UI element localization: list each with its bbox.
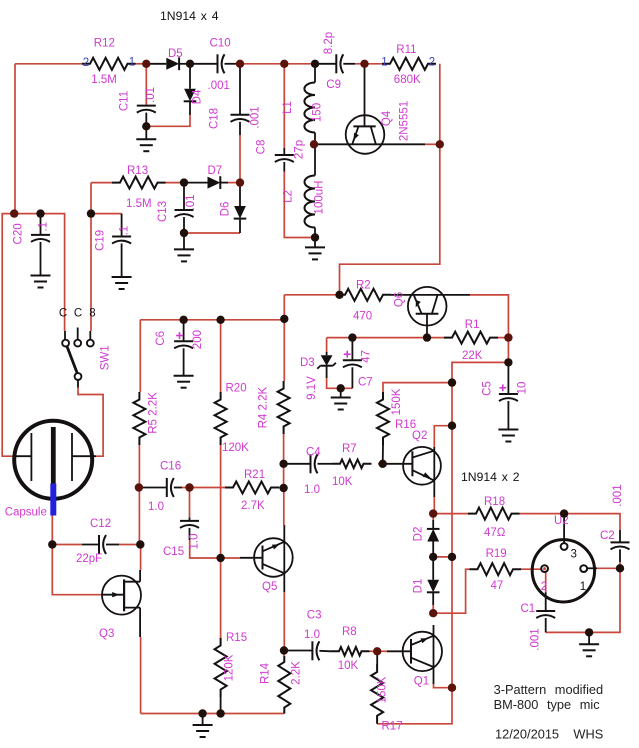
label L1	[282, 101, 294, 114]
capacitor C13	[175, 183, 194, 250]
capacitor C4	[284, 454, 332, 473]
label SW1 pos C2	[74, 308, 82, 320]
svg-text:1.0: 1.0	[188, 534, 200, 550]
svg-text:.001: .001	[612, 484, 624, 506]
wire	[190, 487, 226, 489]
svg-text:47Ω: 47Ω	[484, 527, 506, 539]
label Q5	[262, 581, 277, 593]
junction	[36, 209, 44, 217]
label R19	[486, 548, 507, 560]
label Q3	[99, 628, 114, 640]
label R11	[396, 44, 416, 56]
junction	[136, 540, 144, 548]
svg-text:470: 470	[353, 311, 372, 323]
label C7 value	[361, 350, 373, 363]
switch SW1	[62, 328, 94, 388]
junction	[216, 554, 224, 562]
svg-text:C11: C11	[119, 91, 131, 111]
junction	[280, 646, 288, 654]
label C8 value	[294, 140, 306, 159]
junction	[216, 709, 224, 717]
label R7	[342, 443, 357, 455]
ground bottom	[193, 714, 213, 738]
note line2	[494, 697, 601, 712]
svg-text:R2: R2	[356, 280, 371, 292]
resistor R19	[470, 563, 522, 575]
pin 1 R11	[381, 57, 387, 69]
label R20	[226, 383, 247, 395]
wire	[182, 487, 190, 489]
svg-text:1: 1	[381, 57, 387, 69]
wire	[507, 338, 509, 363]
label XLR pin 3	[571, 549, 577, 561]
resistor R14	[278, 656, 290, 714]
wire	[138, 445, 140, 545]
svg-text:C16: C16	[160, 461, 181, 473]
capacitor C20	[31, 214, 50, 276]
wire	[326, 338, 328, 352]
capacitor C18	[231, 64, 250, 135]
label C4 value	[304, 484, 320, 496]
label C2 value	[612, 484, 624, 506]
label Q2	[412, 430, 427, 442]
wire	[383, 383, 452, 392]
junction	[379, 460, 387, 468]
transistor Q3	[102, 570, 141, 637]
svg-text:R21: R21	[244, 469, 265, 481]
wire	[90, 183, 92, 331]
svg-text:680K: 680K	[394, 74, 421, 86]
diode D6	[234, 183, 247, 233]
resistor R18	[468, 508, 520, 520]
svg-text:C13: C13	[157, 201, 169, 222]
svg-text:C7: C7	[358, 377, 373, 389]
svg-text:10: 10	[517, 382, 529, 395]
label C20	[12, 223, 24, 244]
svg-text:D5: D5	[168, 48, 183, 60]
capacitor C3	[284, 641, 331, 660]
wire	[327, 337, 444, 339]
label R17 value	[377, 676, 389, 703]
wire	[377, 688, 452, 724]
wire	[545, 572, 547, 592]
capacitor C7	[343, 338, 362, 389]
svg-text:C3: C3	[307, 609, 322, 621]
label D5	[168, 48, 183, 60]
label C5	[482, 381, 494, 396]
wire	[520, 514, 621, 530]
capacitor C2	[611, 530, 630, 562]
junction	[360, 60, 368, 68]
inductor L1	[304, 64, 315, 145]
label C6 value	[192, 330, 204, 349]
wire	[91, 213, 122, 215]
label R1 value	[462, 350, 483, 362]
svg-text:1N914 x 4: 1N914 x 4	[160, 9, 219, 23]
label C9 value	[323, 32, 335, 54]
wire	[184, 232, 240, 234]
label R13	[127, 165, 148, 177]
label R19 value	[491, 580, 504, 592]
junction	[448, 378, 456, 386]
label C16 value	[148, 501, 164, 513]
svg-text:C10: C10	[210, 38, 231, 50]
diode D7	[184, 176, 228, 189]
wire	[141, 713, 285, 715]
connector U2 XLR	[532, 514, 597, 602]
capsule blue electrode	[50, 484, 56, 516]
transistor Q4	[314, 64, 425, 154]
wire	[166, 182, 185, 184]
label R4	[258, 386, 270, 428]
svg-text:D2: D2	[413, 527, 425, 542]
label XLR pin 2	[541, 581, 547, 593]
junction	[337, 384, 345, 392]
wire	[136, 63, 147, 65]
label R2	[356, 280, 371, 292]
svg-text:.001: .001	[530, 628, 542, 650]
label U2	[554, 515, 569, 527]
svg-text:1.5M: 1.5M	[91, 74, 117, 86]
junction	[135, 483, 143, 491]
junction	[585, 628, 593, 636]
label C16	[160, 461, 181, 473]
svg-text:D6: D6	[220, 202, 232, 217]
wire	[452, 362, 508, 382]
svg-text:C8: C8	[256, 140, 268, 155]
label D7	[208, 165, 223, 177]
junction	[87, 209, 95, 217]
svg-text:22K: 22K	[462, 350, 483, 362]
label R5	[148, 392, 160, 434]
junction	[180, 229, 188, 237]
wire	[283, 295, 285, 381]
wire	[498, 337, 508, 339]
junction	[198, 709, 206, 717]
junction	[179, 316, 187, 324]
ground C11	[136, 139, 156, 151]
wire	[433, 497, 435, 514]
label C13	[157, 201, 169, 222]
label R21	[244, 469, 265, 481]
wire	[220, 697, 222, 714]
wire	[190, 540, 221, 558]
capacitor C1	[536, 592, 555, 632]
label C12 value	[76, 553, 102, 565]
wire	[355, 63, 382, 65]
resistor R2	[337, 289, 391, 301]
junction	[142, 122, 150, 130]
svg-text:150: 150	[312, 103, 324, 122]
svg-text:10K: 10K	[332, 476, 353, 488]
svg-text:1N914 x 2: 1N914 x 2	[461, 470, 520, 484]
wire	[140, 637, 142, 714]
ground C13	[174, 249, 194, 261]
label Q4 type	[399, 101, 411, 141]
svg-text:2: 2	[541, 581, 547, 593]
label D6	[220, 202, 232, 217]
wire	[283, 488, 285, 525]
svg-text:C: C	[74, 308, 82, 320]
svg-text:C5: C5	[482, 381, 494, 396]
svg-text:C4: C4	[306, 447, 321, 459]
svg-text:C15: C15	[163, 546, 184, 558]
svg-text:L2: L2	[283, 190, 295, 203]
svg-text:Q6: Q6	[394, 292, 406, 307]
ground XLR	[579, 632, 599, 656]
label R11 value	[394, 74, 421, 86]
svg-text:200: 200	[192, 330, 204, 349]
resistor R7	[332, 460, 372, 469]
wire	[432, 605, 434, 613]
svg-text:D3: D3	[300, 357, 315, 369]
label R1	[465, 319, 480, 331]
label R18	[484, 496, 505, 508]
svg-text:10K: 10K	[338, 660, 359, 672]
svg-text:C20: C20	[12, 223, 24, 244]
svg-text:1.0: 1.0	[148, 501, 164, 513]
label C10	[210, 38, 231, 50]
junction	[311, 60, 319, 68]
capacitor C10	[190, 54, 240, 73]
diode D1	[427, 557, 440, 605]
wire	[140, 545, 142, 571]
wire	[220, 445, 222, 638]
svg-text:.01: .01	[185, 195, 197, 211]
svg-text:8.2p: 8.2p	[323, 32, 335, 54]
wire	[145, 64, 147, 106]
resistor R12	[82, 58, 136, 70]
resistor R4	[278, 381, 290, 434]
svg-text:120K: 120K	[224, 654, 236, 681]
wire	[434, 426, 452, 447]
svg-text:100uH: 100uH	[314, 181, 326, 215]
wire	[283, 651, 285, 657]
junction	[236, 178, 244, 186]
label Q1	[414, 676, 429, 688]
wire	[377, 650, 387, 652]
wire	[220, 320, 222, 392]
label C11 value	[145, 87, 157, 103]
label L2	[283, 190, 295, 203]
ground C19	[112, 277, 132, 289]
junction	[616, 564, 624, 572]
label XLR pin 1	[580, 581, 586, 593]
junction	[423, 333, 431, 341]
capacitor C9	[315, 54, 355, 73]
inductor L2	[305, 144, 316, 237]
svg-text:120K: 120K	[222, 442, 249, 454]
wire	[619, 562, 621, 568]
svg-text:R18: R18	[484, 496, 505, 508]
label R16 value	[391, 388, 403, 415]
wire	[433, 556, 452, 558]
note date	[495, 727, 559, 742]
svg-text:WHS: WHS	[573, 727, 603, 742]
wire	[52, 516, 102, 595]
svg-text:Q4: Q4	[381, 110, 393, 126]
label Q4	[381, 110, 393, 126]
label R13 value	[126, 198, 152, 210]
svg-text:C18: C18	[208, 108, 220, 129]
junction	[429, 609, 437, 617]
label D1	[413, 579, 425, 594]
junction	[448, 684, 456, 692]
label C12	[90, 518, 111, 530]
label C18 value	[250, 106, 262, 128]
junction	[216, 316, 224, 324]
label C1 value	[530, 628, 542, 650]
junction	[48, 540, 56, 548]
ground C6	[174, 376, 194, 388]
wire	[78, 388, 103, 457]
wire	[91, 182, 112, 184]
label D4	[192, 89, 204, 104]
label C7	[358, 377, 373, 389]
label C8	[256, 140, 268, 155]
junction	[280, 315, 288, 323]
label C15 value	[188, 534, 200, 550]
svg-text:1.0: 1.0	[304, 484, 320, 496]
capacitor C6	[174, 320, 193, 376]
svg-text:R19: R19	[486, 548, 507, 560]
transistor Q1	[387, 625, 442, 684]
svg-text:2: 2	[83, 57, 89, 69]
ground C20	[31, 276, 51, 288]
label R17	[382, 721, 403, 733]
svg-text:12/20/2015: 12/20/2015	[495, 727, 559, 742]
wire	[14, 64, 16, 214]
svg-text:D4: D4	[192, 89, 204, 104]
junction	[504, 358, 512, 366]
wire	[146, 115, 190, 126]
label D2	[413, 527, 425, 542]
junction	[279, 484, 287, 492]
svg-text:9.1V: 9.1V	[306, 376, 318, 400]
resistor R20	[215, 392, 227, 445]
resistor R17	[371, 651, 383, 724]
svg-text:2.7K: 2.7K	[241, 500, 265, 512]
wire	[451, 383, 453, 426]
junction	[348, 333, 356, 341]
wire	[434, 684, 453, 688]
capacitor C15	[180, 517, 199, 540]
wire	[2, 214, 14, 457]
capacitor C16	[139, 478, 182, 497]
svg-text:Q2: Q2	[412, 430, 427, 442]
label D3 value	[306, 376, 318, 400]
wire	[433, 569, 469, 613]
zener D3	[317, 352, 336, 378]
junction	[310, 140, 318, 148]
svg-text:R4 2.2K: R4 2.2K	[258, 386, 270, 428]
svg-text:R14: R14	[260, 662, 272, 684]
junction	[279, 460, 287, 468]
transistor Q2	[383, 447, 441, 497]
wire	[119, 544, 140, 546]
junction	[560, 509, 568, 517]
junction	[10, 209, 18, 217]
label R12 value	[91, 74, 117, 86]
label C10 value	[208, 80, 230, 92]
junction	[236, 60, 244, 68]
resistor R11	[382, 58, 436, 70]
wire	[283, 64, 285, 148]
capacitor C5	[499, 362, 518, 429]
diode D2	[427, 520, 440, 557]
svg-text:R17: R17	[382, 721, 403, 733]
label R18 value	[484, 527, 506, 539]
wire	[52, 544, 82, 546]
wire	[470, 295, 508, 338]
svg-text:1: 1	[129, 57, 135, 69]
label C4	[306, 447, 321, 459]
wire	[433, 513, 468, 515]
label R7 value	[332, 476, 353, 488]
wire	[340, 64, 440, 295]
resistor R15	[215, 638, 227, 697]
svg-text:2N5551: 2N5551	[399, 101, 411, 141]
ground C5	[498, 430, 518, 442]
wire	[546, 568, 620, 632]
label C18	[208, 108, 220, 129]
svg-text:Q3: Q3	[99, 628, 114, 640]
svg-text:150K: 150K	[391, 388, 403, 415]
label D3	[300, 357, 315, 369]
label R15 value	[224, 654, 236, 681]
wire	[139, 320, 141, 392]
junction	[180, 178, 188, 186]
svg-text:3: 3	[571, 549, 577, 561]
junction	[429, 553, 437, 561]
svg-text:.001: .001	[250, 106, 262, 128]
svg-text:.01: .01	[145, 87, 157, 103]
resistor R5	[133, 392, 145, 445]
label C1	[521, 603, 536, 615]
svg-text:2: 2	[429, 57, 435, 69]
label R12	[94, 38, 115, 50]
label R8	[342, 626, 357, 638]
svg-text:R12: R12	[94, 38, 115, 50]
svg-text:.001: .001	[208, 80, 230, 92]
label Q6	[394, 292, 406, 307]
svg-text:C1: C1	[521, 603, 536, 615]
svg-text:R20: R20	[226, 383, 247, 395]
ground L2	[305, 238, 325, 260]
svg-text:R13: R13	[127, 165, 148, 177]
label C3	[307, 609, 322, 621]
label C3 value	[304, 629, 320, 641]
wire	[425, 143, 440, 145]
resistor R1	[444, 332, 498, 344]
svg-text:C6: C6	[155, 331, 167, 346]
resistor R16	[377, 392, 389, 464]
svg-text:BM-800 type mic: BM-800 type mic	[494, 697, 601, 712]
wire	[521, 568, 541, 570]
wire	[14, 214, 64, 331]
label C6	[155, 331, 167, 346]
svg-text:2.2K: 2.2K	[291, 661, 303, 685]
svg-text:R7: R7	[342, 443, 357, 455]
label R14	[260, 662, 272, 684]
svg-text:R8: R8	[342, 626, 357, 638]
junction	[373, 647, 381, 655]
junction	[142, 60, 150, 68]
pin 1 R12	[129, 57, 135, 69]
capsule body	[14, 421, 96, 499]
wire	[240, 63, 315, 65]
junction	[448, 422, 456, 430]
